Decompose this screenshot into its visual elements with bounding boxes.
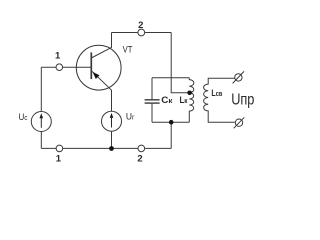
svg-text:Ur: Ur [126, 112, 135, 123]
svg-text:VT: VT [123, 45, 133, 55]
svg-text:2: 2 [137, 153, 142, 164]
svg-text:2: 2 [138, 20, 143, 31]
svg-text:Lсв: Lсв [211, 88, 222, 99]
svg-text:Uпр: Uпр [231, 92, 254, 109]
svg-text:Lк: Lк [180, 95, 188, 106]
svg-text:1: 1 [56, 153, 62, 164]
svg-text:Uc: Uc [19, 112, 28, 123]
svg-text:Cк: Cк [161, 95, 172, 106]
svg-text:1: 1 [55, 51, 61, 62]
